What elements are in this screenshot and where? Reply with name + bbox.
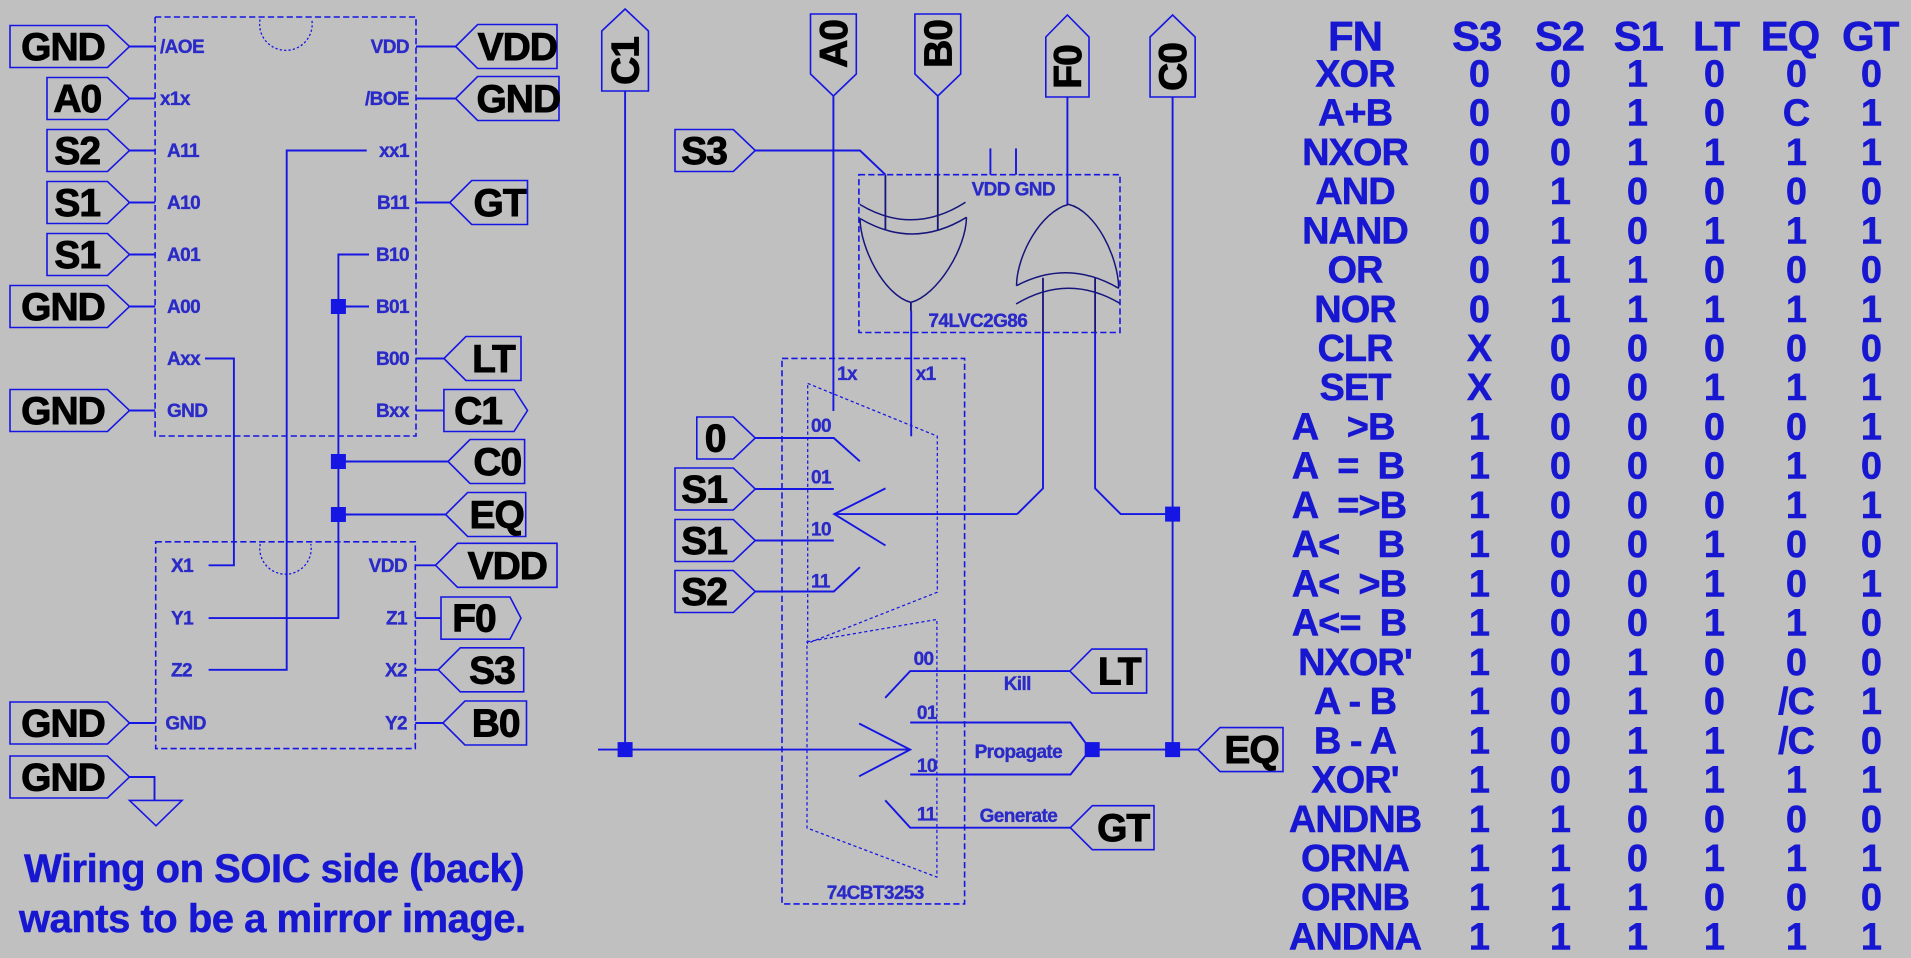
svg-text:11: 11 bbox=[917, 804, 937, 825]
svg-text:XOR: XOR bbox=[1315, 53, 1395, 95]
wire Y2-B0 bbox=[415, 722, 443, 724]
svg-text:A00: A00 bbox=[167, 297, 200, 318]
svg-text:ORNB: ORNB bbox=[1301, 877, 1409, 919]
svg-text:0: 0 bbox=[1627, 563, 1647, 605]
svg-text:0: 0 bbox=[1550, 563, 1570, 605]
wire 0 to mux 00 bbox=[755, 438, 860, 461]
svg-text:A< B: A< B bbox=[1292, 524, 1404, 566]
wire GND flag to U2 bbox=[130, 722, 156, 724]
svg-text:B11: B11 bbox=[377, 193, 410, 214]
svg-text:0: 0 bbox=[1550, 407, 1570, 449]
svg-text:0: 0 bbox=[1550, 446, 1570, 488]
svg-text:GND: GND bbox=[167, 401, 207, 422]
svg-text:1: 1 bbox=[1861, 93, 1882, 135]
svg-text:1: 1 bbox=[1861, 838, 1882, 880]
svg-text:74CBT3253: 74CBT3253 bbox=[827, 883, 924, 904]
global label S2 (mux 11) bbox=[675, 571, 755, 613]
svg-text:0: 0 bbox=[1786, 563, 1806, 605]
svg-text:A - B: A - B bbox=[1314, 681, 1396, 723]
svg-text:GND: GND bbox=[21, 390, 105, 433]
svg-text:1: 1 bbox=[1704, 563, 1725, 605]
svg-text:C1: C1 bbox=[605, 37, 648, 85]
svg-text:LT: LT bbox=[1693, 12, 1741, 59]
svg-text:AND: AND bbox=[1315, 171, 1394, 213]
svg-text:0: 0 bbox=[1469, 210, 1489, 252]
wire S1 to mux 01 bbox=[755, 488, 834, 490]
svg-text:X1: X1 bbox=[171, 556, 194, 577]
svg-text:1: 1 bbox=[1861, 681, 1882, 723]
global label S1 (A10) bbox=[47, 182, 130, 224]
svg-text:1: 1 bbox=[1550, 210, 1571, 252]
svg-text:C0: C0 bbox=[1152, 43, 1195, 91]
svg-text:1: 1 bbox=[1627, 289, 1648, 331]
wire A0 vertical to mux 1x bbox=[832, 96, 834, 411]
svg-text:A >B: A >B bbox=[1292, 407, 1395, 449]
svg-text:0: 0 bbox=[1786, 642, 1806, 684]
global label EQ (Propagate) bbox=[1198, 728, 1283, 772]
svg-text:ORNA: ORNA bbox=[1301, 838, 1409, 880]
mux U4B select arrow bbox=[859, 724, 910, 777]
svg-text:GND: GND bbox=[21, 757, 105, 800]
wire left pin y=46.5 bbox=[130, 46, 156, 48]
svg-text:NOR: NOR bbox=[1314, 289, 1396, 331]
svg-text:0: 0 bbox=[705, 418, 726, 461]
svg-text:1: 1 bbox=[1786, 603, 1807, 645]
svg-text:X2: X2 bbox=[385, 660, 407, 681]
svg-text:C1: C1 bbox=[454, 390, 502, 433]
svg-text:Bxx: Bxx bbox=[376, 401, 410, 422]
svg-text:1: 1 bbox=[1469, 681, 1490, 723]
wire left pin y=150.5 bbox=[130, 150, 156, 152]
svg-text:1: 1 bbox=[1704, 210, 1725, 252]
svg-text:A0: A0 bbox=[53, 78, 101, 121]
svg-text:0: 0 bbox=[1861, 877, 1881, 919]
svg-text:VDD: VDD bbox=[468, 545, 547, 588]
global label GT (Generate) bbox=[1070, 806, 1154, 850]
svg-text:GND: GND bbox=[21, 703, 105, 746]
svg-text:0: 0 bbox=[1786, 799, 1806, 841]
svg-text:F0: F0 bbox=[1047, 45, 1090, 89]
svg-text:0: 0 bbox=[1861, 642, 1881, 684]
svg-text:EQ: EQ bbox=[1224, 729, 1278, 772]
global label 0 (mux 00) bbox=[697, 417, 756, 459]
svg-text:1: 1 bbox=[1627, 917, 1648, 958]
global label C0 (vertical) bbox=[1150, 15, 1195, 97]
svg-text:1: 1 bbox=[1627, 93, 1648, 135]
junction C0-EQ bbox=[1165, 742, 1180, 757]
svg-text:S3: S3 bbox=[469, 649, 515, 692]
svg-text:0: 0 bbox=[1550, 132, 1570, 174]
svg-text:GND: GND bbox=[476, 78, 560, 121]
svg-text:1: 1 bbox=[1469, 446, 1490, 488]
svg-text:A = B: A = B bbox=[1292, 446, 1404, 488]
svg-text:1: 1 bbox=[1786, 485, 1807, 527]
svg-text:0: 0 bbox=[1786, 524, 1806, 566]
svg-text:1: 1 bbox=[1704, 838, 1725, 880]
svg-text:1: 1 bbox=[1861, 132, 1882, 174]
svg-text:74LVC2G86: 74LVC2G86 bbox=[928, 311, 1027, 332]
svg-text:Propagate: Propagate bbox=[975, 742, 1063, 763]
svg-text:B0: B0 bbox=[917, 20, 960, 68]
svg-text:01: 01 bbox=[811, 468, 832, 489]
svg-text:1: 1 bbox=[1627, 642, 1648, 684]
svg-text:1: 1 bbox=[1627, 250, 1648, 292]
svg-text:0: 0 bbox=[1861, 524, 1881, 566]
svg-text:A< >B: A< >B bbox=[1292, 563, 1406, 605]
svg-text:1: 1 bbox=[1786, 210, 1807, 252]
svg-text:0: 0 bbox=[1469, 53, 1489, 95]
IC U1 body (buffer, dashed outline) bbox=[155, 17, 416, 436]
XOR gate U3A (points down) bbox=[860, 175, 967, 311]
svg-text:1: 1 bbox=[1786, 838, 1807, 880]
svg-text:0: 0 bbox=[1704, 681, 1724, 723]
svg-text:A+B: A+B bbox=[1318, 93, 1392, 135]
wire C1 vertical bbox=[624, 91, 626, 750]
svg-text:S1: S1 bbox=[54, 234, 100, 277]
global label VDD (U1) bbox=[456, 25, 557, 69]
svg-text:1: 1 bbox=[1627, 877, 1648, 919]
wire Z1-F0 bbox=[415, 617, 441, 619]
svg-text:C0: C0 bbox=[473, 441, 521, 484]
svg-text:1: 1 bbox=[1861, 485, 1882, 527]
svg-text:Wiring on SOIC side (back): Wiring on SOIC side (back) bbox=[24, 847, 524, 891]
svg-text:wants to be a mirror image.: wants to be a mirror image. bbox=[18, 897, 526, 941]
svg-text:0: 0 bbox=[1704, 328, 1724, 370]
svg-text:0: 0 bbox=[1861, 446, 1881, 488]
wire X2-S3 bbox=[415, 669, 438, 671]
svg-text:0: 0 bbox=[1627, 407, 1647, 449]
svg-text:0: 0 bbox=[1550, 681, 1570, 723]
svg-text:GT: GT bbox=[474, 182, 527, 225]
svg-text:0: 0 bbox=[1550, 93, 1570, 135]
svg-text:0: 0 bbox=[1469, 250, 1489, 292]
svg-text:A<= B: A<= B bbox=[1292, 603, 1406, 645]
wire Bxx-C1 bbox=[416, 410, 444, 412]
svg-text:0: 0 bbox=[1861, 799, 1881, 841]
global label VDD (U2) bbox=[436, 543, 558, 587]
svg-text:0: 0 bbox=[1550, 524, 1570, 566]
svg-text:0: 0 bbox=[1861, 171, 1881, 213]
svg-text:0: 0 bbox=[1786, 407, 1806, 449]
svg-text:1: 1 bbox=[1469, 799, 1490, 841]
svg-text:0: 0 bbox=[1627, 603, 1647, 645]
svg-text:1: 1 bbox=[1469, 760, 1490, 802]
svg-text:1: 1 bbox=[1861, 289, 1882, 331]
svg-text:0: 0 bbox=[1627, 367, 1647, 409]
svg-text:1: 1 bbox=[1469, 720, 1490, 762]
svg-text:X: X bbox=[1467, 367, 1493, 409]
global label S2 (A11) bbox=[47, 130, 130, 172]
svg-text:1: 1 bbox=[1627, 681, 1648, 723]
global label GT (B11) bbox=[450, 181, 528, 225]
wire B11-GT bbox=[416, 202, 450, 204]
svg-text:0: 0 bbox=[1786, 877, 1806, 919]
svg-text:Z2: Z2 bbox=[171, 660, 192, 681]
wire VDD pin bbox=[416, 46, 456, 48]
svg-text:1: 1 bbox=[1704, 289, 1725, 331]
svg-text:0: 0 bbox=[1550, 642, 1570, 684]
global label GND (U2 GND) bbox=[10, 702, 130, 744]
svg-text:S2: S2 bbox=[1535, 12, 1584, 59]
svg-text:XOR': XOR' bbox=[1311, 760, 1398, 802]
svg-text:1: 1 bbox=[1627, 760, 1648, 802]
svg-text:0: 0 bbox=[1550, 367, 1570, 409]
svg-text:Z1: Z1 bbox=[386, 609, 408, 630]
svg-text:Y2: Y2 bbox=[385, 714, 407, 735]
svg-text:Generate: Generate bbox=[980, 806, 1058, 827]
svg-text:NXOR': NXOR' bbox=[1298, 642, 1412, 684]
svg-text:1: 1 bbox=[1704, 760, 1725, 802]
svg-text:x1: x1 bbox=[916, 364, 937, 385]
function table bbox=[1289, 12, 1900, 958]
svg-text:1: 1 bbox=[1627, 132, 1648, 174]
global label F0 (Z1) bbox=[441, 597, 521, 639]
svg-text:ANDNB: ANDNB bbox=[1289, 799, 1421, 841]
svg-text:0: 0 bbox=[1704, 799, 1724, 841]
wire F0 vertical bbox=[1066, 97, 1068, 204]
svg-text:1: 1 bbox=[1786, 132, 1807, 174]
wire C0 vertical bbox=[1172, 97, 1174, 750]
wire B10 to Y1 bbox=[209, 255, 369, 619]
svg-text:VDD GND: VDD GND bbox=[972, 179, 1055, 200]
svg-text:1: 1 bbox=[1550, 799, 1571, 841]
svg-text:1: 1 bbox=[1469, 877, 1490, 919]
XOR gate U3B (points up) bbox=[1016, 204, 1120, 332]
wire S1 to mux 10 bbox=[755, 540, 834, 542]
wire Propagate merge bbox=[910, 723, 1090, 775]
wire left pin y=98.5 bbox=[130, 98, 156, 100]
wire Propagate to EQ bbox=[1091, 749, 1199, 751]
svg-text:1: 1 bbox=[1469, 563, 1490, 605]
svg-text:0: 0 bbox=[1786, 171, 1806, 213]
svg-text:S3: S3 bbox=[681, 130, 727, 173]
svg-text:1: 1 bbox=[1469, 407, 1490, 449]
svg-text:0: 0 bbox=[1627, 210, 1647, 252]
power stub VDD U3 bbox=[989, 148, 991, 174]
svg-text:Axx: Axx bbox=[167, 349, 201, 370]
svg-text:0: 0 bbox=[1704, 53, 1724, 95]
svg-text:ANDNA: ANDNA bbox=[1289, 917, 1422, 958]
wire U3B input A bbox=[1017, 333, 1043, 515]
svg-text:1: 1 bbox=[1861, 563, 1882, 605]
junction C0 bbox=[331, 454, 346, 469]
wire left pin y=254.5 bbox=[130, 254, 156, 256]
IC U4 74CBT3253 dashed outline bbox=[782, 358, 965, 904]
svg-text:1: 1 bbox=[1469, 642, 1490, 684]
wire B0 vertical bbox=[937, 96, 939, 175]
wire /BOE pin bbox=[416, 98, 456, 100]
svg-text:B01: B01 bbox=[376, 297, 410, 318]
svg-text:0: 0 bbox=[1704, 485, 1724, 527]
svg-text:B0: B0 bbox=[472, 703, 520, 746]
svg-text:S1: S1 bbox=[681, 469, 727, 512]
global label EQ (net B10) bbox=[446, 493, 526, 537]
svg-text:0: 0 bbox=[1704, 407, 1724, 449]
svg-text:1: 1 bbox=[1469, 603, 1490, 645]
wire VDD pin U2 bbox=[415, 564, 435, 566]
svg-text:0: 0 bbox=[1704, 171, 1724, 213]
svg-text:1: 1 bbox=[1469, 917, 1490, 958]
svg-text:0: 0 bbox=[1469, 289, 1489, 331]
svg-text:A10: A10 bbox=[167, 193, 200, 214]
global label GND (/BOE) bbox=[456, 77, 559, 121]
junction EQ bbox=[331, 507, 346, 522]
svg-text:0: 0 bbox=[1704, 250, 1724, 292]
svg-text:/C: /C bbox=[1778, 720, 1815, 762]
svg-text:GT: GT bbox=[1097, 807, 1150, 850]
svg-text:1: 1 bbox=[1550, 838, 1571, 880]
svg-text:00: 00 bbox=[811, 416, 831, 437]
wire EQ horizontal bus bbox=[598, 749, 910, 751]
svg-text:0: 0 bbox=[1861, 603, 1881, 645]
mux U4A select arrow bbox=[834, 488, 885, 545]
svg-text:NAND: NAND bbox=[1302, 210, 1408, 252]
svg-text:0: 0 bbox=[1550, 720, 1570, 762]
wire xx1 to Z2 bbox=[209, 151, 367, 670]
global label S1 (A01) bbox=[47, 234, 130, 276]
wire B01 stub bbox=[338, 306, 369, 308]
svg-text:0: 0 bbox=[1627, 171, 1647, 213]
global label S1 (mux 10) bbox=[675, 520, 755, 562]
svg-text:/AOE: /AOE bbox=[160, 37, 204, 58]
svg-text:S2: S2 bbox=[681, 571, 727, 614]
svg-text:GND: GND bbox=[21, 286, 105, 329]
svg-text:1: 1 bbox=[1704, 720, 1725, 762]
svg-text:0: 0 bbox=[1550, 485, 1570, 527]
junction B01 bbox=[331, 299, 346, 314]
svg-text:1: 1 bbox=[1704, 917, 1725, 958]
svg-text:Y1: Y1 bbox=[171, 609, 194, 630]
mux U4B trapezoid bbox=[807, 619, 937, 877]
svg-text:0: 0 bbox=[1786, 328, 1806, 370]
global label LT (Kill) bbox=[1070, 649, 1147, 693]
svg-text:1: 1 bbox=[1550, 289, 1571, 331]
junction C1-EQ bus bbox=[618, 742, 633, 757]
svg-text:1: 1 bbox=[1704, 132, 1725, 174]
junction C0-XOR bbox=[1165, 507, 1180, 522]
svg-text:0: 0 bbox=[1469, 171, 1489, 213]
global label GND (power symbol) bbox=[10, 756, 130, 798]
svg-text:1: 1 bbox=[1786, 917, 1807, 958]
svg-text:0: 0 bbox=[1550, 328, 1570, 370]
svg-text:CLR: CLR bbox=[1317, 328, 1393, 370]
svg-text:0: 0 bbox=[1861, 328, 1881, 370]
svg-text:1: 1 bbox=[1861, 210, 1882, 252]
svg-text:A01: A01 bbox=[167, 245, 201, 266]
wire B00-LT bbox=[416, 358, 444, 360]
global label B0 (Y2) bbox=[443, 701, 527, 745]
svg-text:/BOE: /BOE bbox=[365, 89, 409, 110]
wire mux 11 Generate to GT bbox=[885, 800, 1070, 827]
svg-text:01: 01 bbox=[917, 703, 938, 724]
wire S2 to mux 11 bbox=[755, 567, 860, 591]
svg-text:1: 1 bbox=[1861, 407, 1882, 449]
global label GND (A00) bbox=[10, 286, 130, 328]
global label C1 (vertical) bbox=[602, 9, 649, 91]
svg-text:EQ: EQ bbox=[1761, 12, 1820, 59]
global label GND (/AOE) bbox=[10, 26, 130, 68]
svg-text:0: 0 bbox=[1627, 446, 1647, 488]
svg-text:Kill: Kill bbox=[1004, 674, 1031, 695]
svg-text:0: 0 bbox=[1469, 132, 1489, 174]
mux U4A trapezoid bbox=[808, 383, 938, 643]
svg-text:1: 1 bbox=[1786, 760, 1807, 802]
global label S3 (XOR input) bbox=[675, 130, 755, 172]
svg-text:1: 1 bbox=[1861, 367, 1882, 409]
svg-text:0: 0 bbox=[1627, 524, 1647, 566]
global label A0 (x1x) bbox=[47, 78, 130, 120]
svg-text:F0: F0 bbox=[452, 598, 496, 641]
wire mux U4A select bbox=[834, 513, 1017, 515]
svg-text:LT: LT bbox=[472, 338, 516, 381]
svg-text:0: 0 bbox=[1627, 485, 1647, 527]
global label A0 (vertical) bbox=[811, 14, 857, 96]
IC U3 74LVC2G86 dashed outline bbox=[859, 175, 1120, 333]
svg-text:B00: B00 bbox=[376, 349, 409, 370]
ground symbol bbox=[130, 800, 183, 825]
svg-text:1: 1 bbox=[1550, 171, 1571, 213]
svg-text:C: C bbox=[1783, 93, 1810, 135]
svg-text:0: 0 bbox=[1469, 93, 1489, 135]
svg-text:0: 0 bbox=[1861, 720, 1881, 762]
global label B0 (vertical) bbox=[915, 14, 961, 96]
svg-text:VDD: VDD bbox=[369, 556, 407, 577]
wire mux 00 Kill to LT bbox=[885, 671, 1070, 698]
global label C1 (Bxx) bbox=[444, 390, 528, 432]
svg-text:1: 1 bbox=[1861, 760, 1882, 802]
wire GND to ground symbol bbox=[130, 777, 155, 800]
wire left pin y=202.5 bbox=[130, 202, 156, 204]
svg-text:1: 1 bbox=[1550, 917, 1571, 958]
svg-text:10: 10 bbox=[811, 520, 831, 541]
svg-text:1x: 1x bbox=[837, 364, 858, 385]
svg-text:0: 0 bbox=[1786, 250, 1806, 292]
svg-text:0: 0 bbox=[1550, 603, 1570, 645]
svg-text:LT: LT bbox=[1098, 651, 1142, 694]
power stub GND U3 bbox=[1015, 148, 1017, 174]
svg-text:S1: S1 bbox=[1614, 12, 1664, 59]
svg-text:0: 0 bbox=[1627, 328, 1647, 370]
svg-text:S2: S2 bbox=[54, 130, 100, 173]
svg-text:0: 0 bbox=[1861, 250, 1881, 292]
svg-text:1: 1 bbox=[1550, 877, 1571, 919]
svg-text:VDD: VDD bbox=[371, 37, 409, 58]
svg-text:1: 1 bbox=[1704, 603, 1725, 645]
wire U3A output to mux x1 bbox=[910, 311, 912, 436]
svg-text:S1: S1 bbox=[681, 520, 727, 563]
svg-text:1: 1 bbox=[1861, 917, 1882, 958]
global label F0 (vertical) bbox=[1046, 15, 1089, 97]
wire Axx to X1 bbox=[205, 359, 234, 566]
svg-text:NXOR: NXOR bbox=[1302, 132, 1408, 174]
svg-text:1: 1 bbox=[1627, 720, 1648, 762]
svg-text:0: 0 bbox=[1704, 93, 1724, 135]
svg-text:11: 11 bbox=[811, 571, 831, 592]
svg-text:0: 0 bbox=[1786, 53, 1806, 95]
svg-text:EQ: EQ bbox=[469, 494, 523, 537]
IC U2 body (dashed outline) bbox=[156, 542, 416, 749]
global label S3 (X2) bbox=[438, 648, 523, 692]
svg-text:/C: /C bbox=[1778, 681, 1815, 723]
svg-text:0: 0 bbox=[1861, 53, 1881, 95]
svg-text:X: X bbox=[1467, 328, 1493, 370]
svg-text:1: 1 bbox=[1469, 485, 1490, 527]
svg-text:S1: S1 bbox=[54, 182, 100, 225]
svg-text:1: 1 bbox=[1786, 367, 1807, 409]
svg-text:1: 1 bbox=[1469, 838, 1490, 880]
global label C0 (net B01) bbox=[448, 440, 525, 484]
svg-text:A11: A11 bbox=[167, 141, 200, 162]
